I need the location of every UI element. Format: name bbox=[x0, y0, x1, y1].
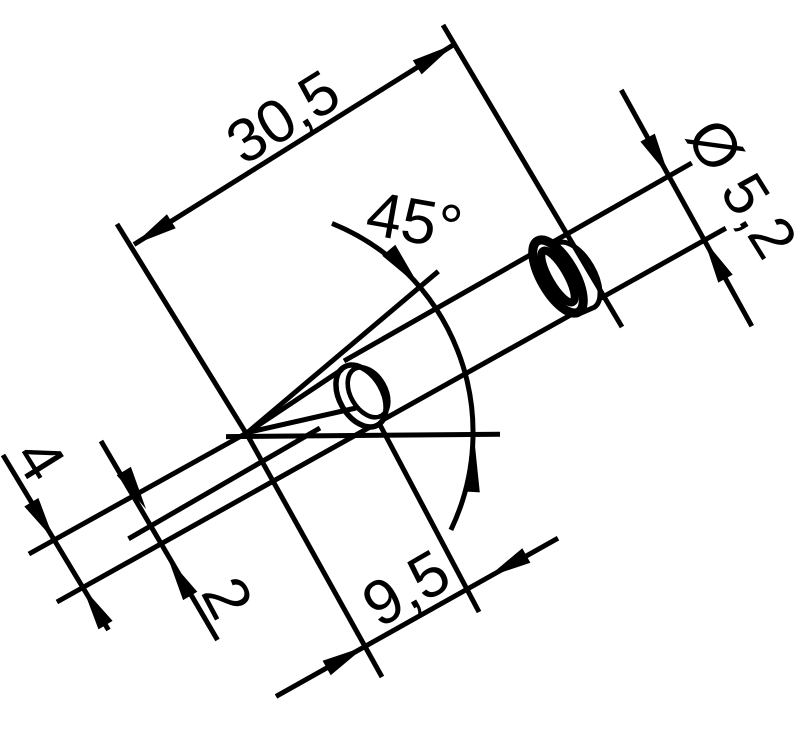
svg-text:4: 4 bbox=[1, 426, 79, 493]
arrow 2 upper bbox=[117, 467, 146, 509]
arrow diameter upper bbox=[640, 134, 669, 177]
dimension line 9,5 bbox=[276, 538, 558, 696]
tip cut face inner ellipse bbox=[339, 360, 396, 424]
arrow 2 lower bbox=[168, 558, 197, 600]
tip cut face outer ellipse bbox=[326, 356, 397, 436]
arrow 4 lower bbox=[83, 588, 113, 630]
dimension line 4 bbox=[3, 455, 109, 630]
tip upper silhouette line bbox=[248, 370, 343, 433]
arrow 9,5 left bbox=[323, 647, 365, 676]
shaft upper edge + diameter upper extension EL1 bbox=[344, 163, 692, 361]
dimension line 30,5 bbox=[134, 44, 455, 244]
45deg leg line from tip bbox=[248, 271, 439, 432]
arrow diameter lower bbox=[704, 240, 733, 283]
extension line 30,5 right bbox=[443, 25, 622, 327]
extension line2 for 2 bbox=[129, 428, 321, 539]
extension line 30,5 left (perp through tip) bbox=[117, 224, 249, 438]
collar front face outer ellipse bbox=[523, 232, 593, 320]
arrow 9,5 right bbox=[488, 548, 530, 577]
arrow 4 upper bbox=[24, 498, 54, 540]
arrow 30,5 right bbox=[413, 44, 455, 74]
arrow on 45deg arc at leg bbox=[382, 245, 420, 287]
dimension line diameter bbox=[621, 90, 752, 326]
arrow on 45deg arc at horizontal line bbox=[465, 446, 480, 492]
45deg dimension arc bbox=[332, 223, 473, 530]
svg-text:30,5: 30,5 bbox=[215, 57, 352, 178]
horizontal reference line bbox=[226, 434, 500, 436]
svg-text:2: 2 bbox=[188, 566, 266, 630]
arrow 30,5 left bbox=[134, 214, 176, 244]
extension line 9,5 left (continuation) bbox=[249, 438, 382, 677]
tip lower silhouette line bbox=[248, 408, 357, 433]
collar front face inner ellipse bbox=[535, 246, 580, 306]
extension line 9,5 right bbox=[370, 406, 479, 612]
collar silhouette (white body) bbox=[531, 239, 600, 315]
shaft lower edge + extension X2 + diameter lower extension EL2 bbox=[57, 228, 726, 602]
dimension line 2 bbox=[101, 441, 218, 640]
extension line X1 through tip bbox=[29, 433, 248, 555]
svg-text:45°: 45° bbox=[361, 178, 467, 263]
